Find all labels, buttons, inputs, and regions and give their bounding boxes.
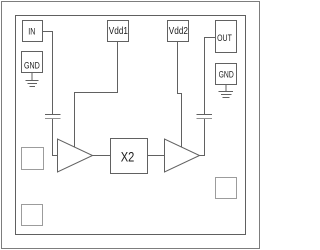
wire X2 to amplifier A2 <box>148 155 165 157</box>
pad IN <box>23 21 43 42</box>
svg-text:IN: IN <box>28 27 35 37</box>
outer die border <box>2 2 260 249</box>
capacitor C1 (input coupling) <box>45 114 61 116</box>
pad P1 (left middle, unlabeled) <box>22 148 44 170</box>
svg-text:GND: GND <box>24 61 40 71</box>
wire C2 to OUT <box>205 38 216 115</box>
inner die boundary <box>16 16 246 235</box>
pad GND1 <box>22 52 43 73</box>
doubler block X2 <box>111 139 148 174</box>
capacitor C2 (output coupling) <box>197 114 213 116</box>
svg-text:GND: GND <box>219 70 234 81</box>
pad OUT <box>216 21 237 53</box>
wire C1 to amplifier A1 input <box>53 119 58 156</box>
wire A2 to coupling cap C2 <box>200 119 205 156</box>
amplifier A1 (input buffer triangle) <box>58 139 93 172</box>
pad P3 (bottom right, unlabeled) <box>216 178 237 199</box>
ground symbol G1 <box>31 73 33 81</box>
pad GND2 <box>216 64 237 85</box>
svg-text:Vdd1: Vdd1 <box>109 26 129 37</box>
wire IN to coupling cap C1 <box>43 32 53 115</box>
pad P2 (bottom left, unlabeled) <box>22 205 43 226</box>
wire Vdd2 to A2 <box>178 42 182 148</box>
svg-text:Vdd2: Vdd2 <box>169 26 189 37</box>
wire A1 to X2 <box>93 155 111 157</box>
ground symbol G2 <box>225 84 227 92</box>
svg-text:OUT: OUT <box>217 33 232 43</box>
svg-text:X2: X2 <box>121 148 135 164</box>
amplifier A2 (output buffer triangle) <box>165 139 200 172</box>
pad Vdd1 <box>108 21 129 42</box>
pad Vdd2 <box>168 21 189 42</box>
wire Vdd1 to A1 <box>75 42 118 148</box>
